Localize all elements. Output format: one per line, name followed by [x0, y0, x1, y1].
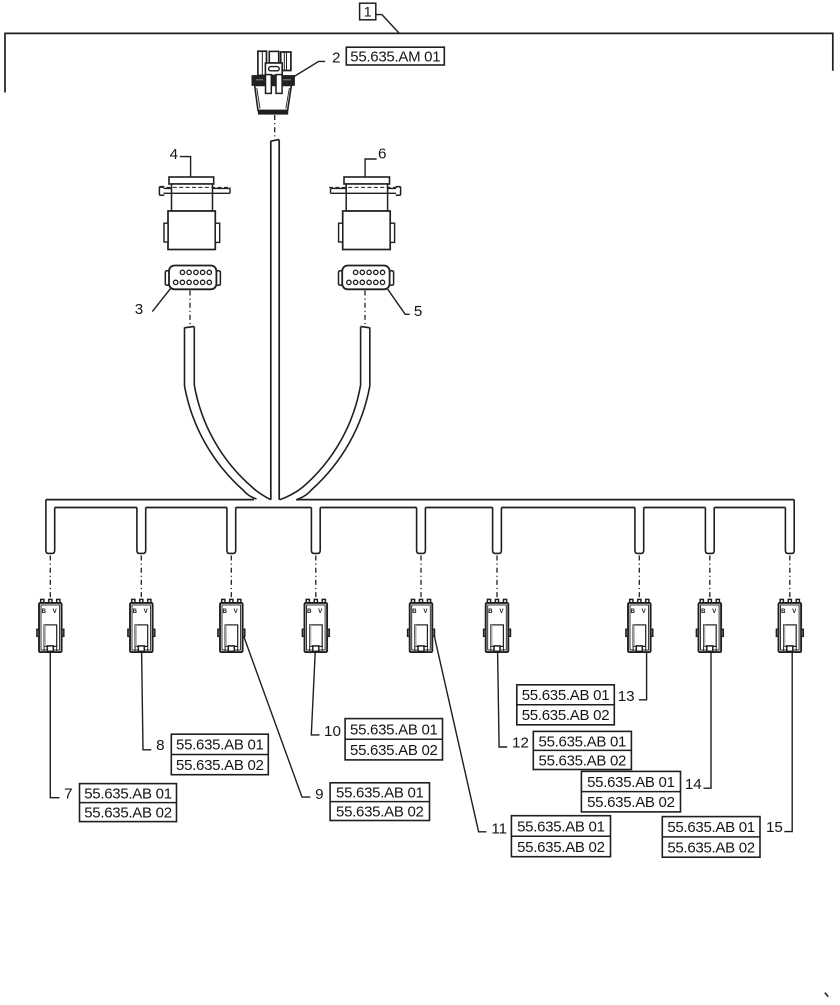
svg-text:7: 7: [64, 785, 72, 802]
part number box for item 12: [533, 731, 631, 769]
svg-text:B: B: [307, 608, 312, 615]
svg-text:55.635.AB 02: 55.635.AB 02: [539, 752, 627, 769]
relay component 6: [329, 177, 401, 250]
part number box for item 14: [581, 771, 680, 812]
connector 11: [408, 599, 435, 652]
wire dash-dot to connector 8: [140, 556, 142, 599]
leader to label 8: [142, 652, 152, 750]
svg-text:B: B: [132, 608, 137, 615]
svg-text:15: 15: [766, 819, 783, 836]
wire right branch tube: [280, 326, 370, 499]
connector 9: [218, 599, 245, 652]
svg-text:4: 4: [170, 146, 178, 163]
part number box for item 10: [345, 719, 442, 760]
leader to label 11: [435, 637, 487, 832]
part number box for item 11: [511, 816, 610, 857]
connector 15: [776, 599, 803, 652]
svg-text:13: 13: [618, 688, 635, 705]
bus stub 8: [705, 508, 714, 554]
svg-text:55.635.AB 01: 55.635.AB 01: [350, 721, 438, 738]
svg-text:55.635.AM 01: 55.635.AM 01: [350, 49, 440, 66]
leader to label 5: [388, 289, 410, 314]
connector 8: [128, 599, 155, 652]
svg-text:12: 12: [512, 734, 529, 751]
wire dash-dot to connector 10: [315, 556, 317, 599]
svg-text:55.635.AB 02: 55.635.AB 02: [350, 742, 438, 759]
leader to label 14: [704, 652, 712, 788]
svg-text:9: 9: [315, 786, 323, 803]
part number box for item 8: [171, 734, 268, 775]
svg-text:55.635.AB 01: 55.635.AB 01: [517, 818, 605, 835]
svg-text:14: 14: [685, 776, 702, 793]
svg-text:B: B: [412, 608, 417, 615]
bus stub 2: [137, 508, 146, 554]
svg-text:6: 6: [378, 145, 386, 162]
part number box for item 13: [517, 685, 615, 725]
svg-text:10: 10: [324, 723, 341, 740]
part number box 55.635.AM 01: [346, 47, 444, 65]
wire dash-dot to connector 14: [709, 556, 711, 599]
leader from label 4: [180, 157, 191, 177]
svg-text:55.635.AB 02: 55.635.AB 02: [522, 707, 610, 724]
svg-text:5: 5: [414, 303, 422, 320]
leader to label 7: [50, 652, 59, 798]
wire dash-dot to connector 7: [49, 556, 51, 599]
connector 12: [484, 599, 511, 652]
wire dash-dot connector 2 to trunk: [274, 115, 276, 139]
connector 2 body: [252, 51, 294, 114]
svg-text:55.635.AB 02: 55.635.AB 02: [176, 757, 264, 774]
leader to label 10: [311, 652, 319, 735]
part number box for item 9: [330, 783, 429, 821]
leader to label 9: [244, 637, 311, 797]
svg-text:2: 2: [332, 50, 340, 67]
wire dash-dot to connector 9: [230, 556, 232, 599]
wire trunk (center harness tube): [271, 139, 279, 500]
svg-text:B: B: [781, 608, 786, 615]
border frame top rule with side ticks: [5, 33, 833, 92]
svg-text:55.635.AB 02: 55.635.AB 02: [587, 794, 675, 811]
svg-text:B: B: [41, 608, 46, 615]
harness bus bar top edge: [46, 499, 794, 501]
svg-text:55.635.AB 01: 55.635.AB 01: [539, 733, 627, 750]
svg-text:55.635.AB 02: 55.635.AB 02: [84, 805, 172, 822]
wire dash-dot to connector 15: [789, 556, 791, 599]
svg-text:B: B: [701, 608, 706, 615]
svg-text:8: 8: [156, 737, 164, 754]
bus stub 7: [635, 508, 644, 554]
connector 10: [302, 599, 329, 652]
leader from connector 2 to label: [294, 61, 325, 76]
connector 14: [696, 599, 723, 652]
bus stub 6: [493, 508, 502, 554]
leader from label 6: [365, 159, 377, 177]
svg-text:55.635.AB 01: 55.635.AB 01: [84, 786, 172, 803]
bus stub 1: [46, 500, 55, 554]
part number box for item 7: [80, 784, 177, 822]
wire dash-dot connector 5 to right branch: [364, 291, 366, 326]
bus stub 9: [785, 500, 794, 554]
wire dash-dot to connector 12: [496, 556, 498, 599]
bus stub 5: [417, 508, 426, 554]
wire left branch tube: [185, 326, 271, 499]
svg-text:B: B: [630, 608, 635, 615]
bus stub 4: [311, 508, 320, 554]
leader from node 1 to frame: [376, 15, 399, 33]
part number box for item 15: [662, 817, 760, 858]
leader to label 13: [639, 652, 647, 700]
leader to label 15: [784, 652, 792, 831]
connector 3 (10-pin): [165, 266, 220, 290]
svg-text:55.635.AB 02: 55.635.AB 02: [667, 839, 755, 856]
leader to label 12: [498, 652, 508, 747]
svg-text:55.635.AB 01: 55.635.AB 01: [522, 687, 610, 704]
connector 7: [37, 599, 64, 652]
connector 13: [626, 599, 653, 652]
svg-text:55.635.AB 01: 55.635.AB 01: [176, 737, 264, 754]
harness bus bar bottom edge: [55, 507, 786, 509]
connector 5 (10-pin): [339, 266, 394, 290]
node 1 callout box: [360, 3, 376, 20]
svg-text:55.635.AB 01: 55.635.AB 01: [336, 785, 424, 802]
svg-text:11: 11: [491, 821, 507, 838]
svg-text:3: 3: [135, 301, 143, 318]
bus stub 3: [227, 508, 236, 554]
svg-text:55.635.AB 01: 55.635.AB 01: [587, 774, 675, 791]
wire dash-dot to connector 11: [420, 556, 422, 599]
svg-text:B: B: [222, 608, 227, 615]
relay component 4: [159, 177, 231, 250]
svg-text:55.635.AB 02: 55.635.AB 02: [336, 804, 424, 821]
svg-text:55.635.AB 02: 55.635.AB 02: [517, 839, 605, 856]
wire dash-dot connector 3 to left branch: [189, 291, 191, 326]
svg-text:B: B: [488, 608, 493, 615]
wire dash-dot to connector 13: [638, 556, 640, 599]
leader to label 3: [152, 289, 170, 312]
svg-text:55.635.AB 01: 55.635.AB 01: [667, 819, 755, 836]
stray tick mark bottom right: [825, 993, 829, 997]
svg-text:1: 1: [364, 5, 372, 21]
